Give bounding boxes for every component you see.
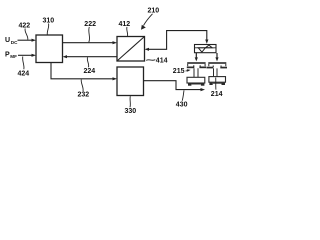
svg-text:414: 414 [156, 57, 168, 64]
svg-text:P: P [5, 52, 10, 59]
svg-text:412: 412 [119, 21, 131, 28]
svg-text:U: U [5, 37, 10, 44]
svg-text:214: 214 [211, 91, 223, 98]
svg-text:330: 330 [125, 108, 137, 115]
svg-text:430: 430 [176, 102, 188, 109]
svg-text:215: 215 [173, 68, 185, 75]
svg-text:424: 424 [18, 71, 30, 78]
svg-text:222: 222 [84, 21, 96, 28]
svg-text:MF: MF [10, 54, 17, 59]
svg-text:310: 310 [43, 17, 55, 24]
svg-text:224: 224 [84, 68, 96, 75]
svg-text:232: 232 [78, 92, 90, 99]
svg-text:DC: DC [11, 40, 18, 45]
svg-text:422: 422 [19, 23, 31, 30]
svg-text:210: 210 [148, 8, 160, 15]
